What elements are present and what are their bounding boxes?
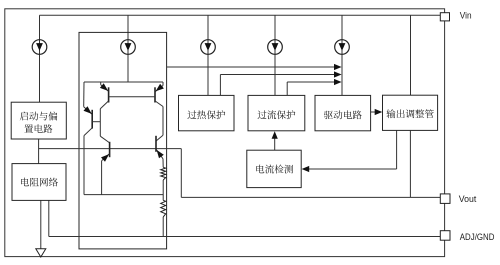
wire: driver to output pass device — [371, 109, 383, 115]
node: feedback tap junction — [39, 148, 60, 150]
wire: rail to output pass device — [410, 15, 412, 95]
transistor Q1 (PNP mirror left) — [100, 82, 109, 109]
block U2: resistor network — [12, 164, 66, 201]
block U4: overcurrent protection — [248, 95, 305, 130]
wire: Q5 emitter to R1 — [162, 159, 164, 168]
current source I5 — [335, 40, 350, 55]
label: startup & bias line2 — [24, 124, 52, 133]
wire: Q4 emitter down — [101, 161, 103, 195]
block U5: driver — [315, 95, 371, 130]
transistor Q4 (PNP lower left) — [101, 142, 110, 162]
wire: rail to bandgap current source I2 — [127, 15, 129, 82]
wire: output device to Vout — [409, 131, 411, 198]
wire: bias block to resistor network — [38, 139, 40, 164]
wire: resistor network to ground — [40, 200, 42, 248]
block U3: thermal protection — [179, 95, 235, 130]
wire: Q2 collector chain down — [162, 107, 164, 136]
inner bandgap reference box — [79, 32, 167, 249]
transistor Q2 (PNP mirror right) — [155, 82, 164, 107]
svg-text:Vin: Vin — [460, 11, 472, 22]
wire: left branch emitter bus — [84, 194, 163, 196]
block U1: startup & bias — [11, 102, 66, 139]
wire: feedback to Vout pin — [181, 196, 440, 198]
wire: thermal protection output — [220, 71, 341, 95]
label: driver circuit — [324, 110, 362, 119]
label: current sense — [256, 165, 293, 174]
block U7: current sense — [247, 150, 301, 187]
current source I4 — [268, 40, 283, 55]
pin Vout — [440, 194, 450, 204]
block U6: output pass device — [383, 95, 438, 130]
wire: into Q5 collector — [156, 135, 163, 141]
wire: Q1 collector chain down — [99, 109, 101, 137]
wire: overcurrent protection output — [287, 79, 341, 96]
wire: rail to driver I5 — [341, 15, 343, 95]
svg-text:Vout: Vout — [459, 194, 477, 205]
label: startup & bias line1 — [20, 112, 58, 121]
wire: current sense to overcurrent protection — [272, 131, 278, 150]
wire: feedback vertical — [180, 149, 182, 198]
svg-text:ADJ/GND: ADJ/GND — [460, 232, 495, 243]
resistor R2 — [161, 200, 166, 217]
wire: bandgap output to driver (line 1) — [167, 64, 342, 70]
wire: into Q4 collector — [100, 136, 109, 142]
wire: R2 to ADJ rail — [162, 217, 164, 237]
ground symbol — [36, 249, 46, 257]
transistor Q3 (PNP left cascode) — [84, 82, 101, 136]
wire: Q1-Q2 base link — [109, 96, 155, 98]
label: thermal protection — [187, 110, 225, 119]
Vin supply top rail — [40, 14, 441, 16]
wire: Q3 collector down — [83, 136, 85, 195]
resistor R1 — [161, 167, 166, 180]
current source I3 — [201, 40, 216, 55]
label: overcurrent protection — [258, 110, 296, 119]
current source I2 — [121, 40, 136, 55]
pin ADJ/GND — [440, 231, 450, 241]
wire: R1 to R2 — [162, 180, 164, 200]
pin Vin — [440, 13, 449, 21]
transistor Q5 (PNP lower right) — [156, 136, 164, 159]
wire: Q4/Q5 base line / feedback — [60, 148, 181, 150]
wire: rail to thermal protection I3 — [207, 15, 209, 95]
wire: rail to overcurrent protection I4 — [274, 15, 276, 95]
label: output pass device — [386, 109, 433, 118]
current source I1 — [32, 40, 47, 55]
wire: resistor network to ADJ rail — [48, 200, 50, 236]
ADJ/GND rail — [49, 236, 441, 238]
wire: rail to bias current source I1 and startup block — [39, 15, 41, 102]
wire: output device sense tap — [302, 131, 397, 173]
label: resistor network — [21, 178, 58, 187]
bandgap emitter rail — [84, 81, 163, 83]
